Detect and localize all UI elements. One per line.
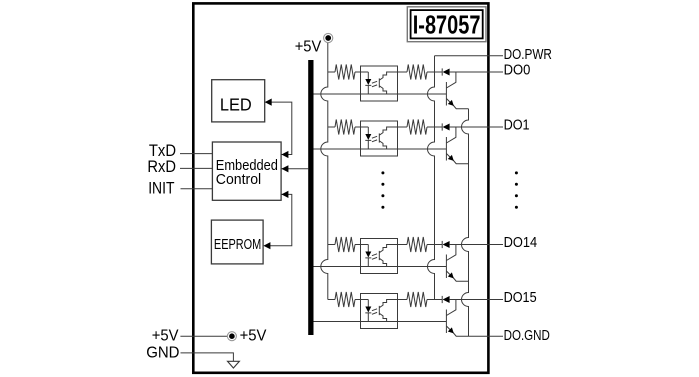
arrowhead into LED [265, 99, 272, 106]
DO.GND emitter rail with hops [462, 109, 469, 337]
transistor Q3 (row3) [446, 245, 468, 282]
wire DO.GND output [469, 335, 504, 337]
resistor R2b collector load [407, 120, 427, 135]
Embedded Control box U2 [212, 142, 281, 200]
opto U2b light coupling dashes [372, 136, 377, 142]
arrowhead into EEPROM [263, 242, 270, 249]
wire R4a to opto (row4) [355, 299, 368, 301]
optocoupler U2b box (row2) [361, 121, 398, 156]
EEPROM box U3 [211, 220, 263, 264]
opto U3b LED [365, 245, 371, 267]
svg-text:DO15: DO15 [504, 290, 537, 306]
svg-text:+5V: +5V [295, 39, 322, 56]
wire LED return to bus (row2) [314, 148, 447, 150]
svg-text:+5V: +5V [152, 327, 179, 344]
resistor R3b collector load [407, 237, 427, 252]
resistor R1b collector load [407, 65, 427, 80]
wire RxD to Embedded Control [180, 167, 212, 169]
wire LED return to bus (row4) [314, 321, 447, 323]
wire opto to R4b (row4) [398, 299, 408, 301]
opto U1b phototransistor [379, 72, 397, 94]
ellipsis (inner rows continue) [381, 171, 384, 208]
resistor R3a input [335, 237, 355, 252]
arrowhead into Embedded Control (from LED wire) [281, 151, 288, 158]
wire DO0 output [450, 71, 503, 73]
resistor R1a input [335, 65, 355, 80]
opto U2b LED [365, 127, 371, 149]
clamp diode D4 (row4) [442, 296, 449, 303]
svg-text:EEPROM: EEPROM [214, 237, 261, 253]
opto U3b light coupling dashes [372, 254, 377, 259]
svg-text:DO.GND: DO.GND [504, 328, 550, 344]
wire +5V to terminal [180, 335, 227, 337]
wire DO14 output [450, 244, 503, 246]
wire LED return to bus (row1) [314, 93, 447, 95]
+5V terminal dot (top) [324, 33, 333, 42]
module border [193, 3, 488, 372]
transistor Q1 (row1) [446, 72, 468, 109]
transistor Q2 (row2) [446, 127, 468, 164]
module name box I-87057 [407, 7, 486, 42]
svg-text:TxD: TxD [149, 142, 176, 160]
wire R3a to opto (row3) [355, 244, 368, 246]
arrowhead into Embedded Control (from EEPROM wire) [281, 191, 288, 198]
wire opto to R3b (row3) [398, 244, 408, 246]
wire Embedded Control to isolation bus [281, 168, 308, 170]
resistor R4b collector load [407, 292, 427, 307]
opto U3b phototransistor [379, 245, 397, 267]
arrowhead into Embedded Control (from bus) [281, 165, 288, 172]
svg-text:I-87057: I-87057 [413, 10, 481, 40]
transistor Q4 (row4) [446, 300, 468, 337]
opto U4b LED [365, 300, 371, 322]
clamp diode D3 (row3) [442, 241, 449, 248]
wire +5V tap (row4) [328, 299, 335, 301]
clamp diode D1 (row1) [442, 68, 449, 75]
opto U2b phototransistor [379, 127, 397, 149]
optocoupler U4b box (row4) [361, 294, 398, 329]
ellipsis (output labels continue) [515, 171, 518, 208]
svg-text:DO.PWR: DO.PWR [504, 47, 552, 63]
svg-text:RxD: RxD [147, 158, 176, 176]
resistor R2a input [335, 120, 355, 135]
wire DO15 output [450, 299, 503, 301]
wire LED return to bus (row3) [314, 266, 447, 268]
ground symbol [228, 361, 240, 368]
isolation barrier bar [308, 60, 313, 335]
+5V feed line (isolated side) with hops [321, 43, 328, 300]
resistor R4a input [335, 292, 355, 307]
wire R2b to rail (row2) [427, 126, 442, 128]
svg-text:GND: GND [146, 344, 179, 361]
opto U1b light coupling dashes [372, 81, 377, 87]
wire INIT to Embedded Control [181, 188, 213, 190]
wire Embedded Control to LED [271, 102, 291, 154]
svg-text:+5V: +5V [240, 327, 268, 344]
wire R2a to opto (row2) [355, 126, 368, 128]
svg-text:LED: LED [220, 95, 252, 115]
wire +5V tap (row1) [328, 71, 335, 73]
wire R3b to rail (row3) [427, 244, 442, 246]
wire Embedded Control to EEPROM [270, 194, 292, 245]
opto U4b phototransistor [379, 300, 397, 322]
svg-text:DO14: DO14 [504, 235, 537, 251]
DO.PWR rail with hops [428, 56, 435, 300]
opto U1b LED [365, 72, 371, 94]
optocoupler U1b box (row1) [361, 66, 398, 101]
wire +5V tap (row3) [328, 244, 335, 246]
svg-text:DO0: DO0 [504, 63, 531, 79]
svg-text:INIT: INIT [148, 179, 174, 197]
wire DO.PWR output [435, 55, 504, 57]
wire GND to ground symbol [181, 353, 234, 361]
wire +5V tap (row2) [328, 126, 335, 128]
wire R4b to rail (row4) [427, 299, 442, 301]
svg-text:DO1: DO1 [504, 118, 530, 134]
wire DO1 output [450, 126, 503, 128]
wire opto to R1b (row1) [398, 71, 408, 73]
svg-text:Control: Control [216, 172, 261, 188]
+5V terminal dot (bottom) [227, 332, 236, 341]
LED indicator box [212, 80, 265, 122]
optocoupler U3b box (row3) [361, 239, 398, 274]
wire opto to R2b (row2) [398, 126, 408, 128]
wire R1a to opto (row1) [355, 71, 368, 73]
clamp diode D2 (row2) [442, 123, 449, 130]
wire TxD to Embedded Control [180, 153, 212, 155]
wire R1b to rail (row1) [427, 71, 442, 73]
opto U4b light coupling dashes [372, 309, 377, 314]
